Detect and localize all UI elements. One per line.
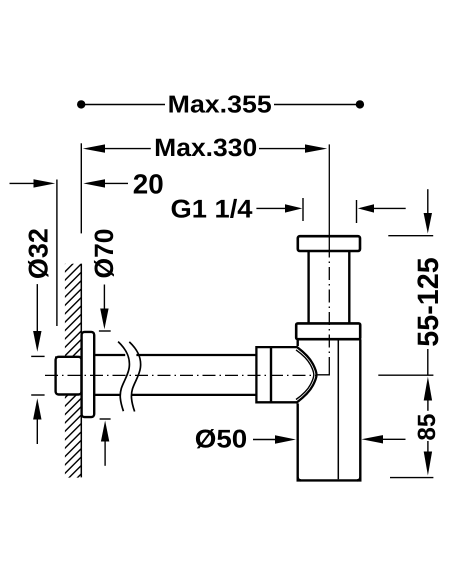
- svg-text:55-125: 55-125: [412, 257, 445, 347]
- svg-text:Max.355: Max.355: [168, 91, 272, 118]
- svg-text:Ø32: Ø32: [23, 228, 54, 279]
- svg-text:85: 85: [413, 414, 441, 441]
- svg-text:20: 20: [133, 169, 164, 200]
- svg-text:Ø50: Ø50: [195, 426, 248, 454]
- svg-text:Max.330: Max.330: [154, 134, 257, 162]
- svg-text:G1 1/4: G1 1/4: [171, 195, 254, 223]
- svg-text:Ø70: Ø70: [89, 229, 119, 279]
